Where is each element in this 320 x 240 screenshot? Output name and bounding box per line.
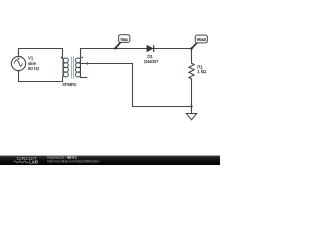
ground symbol — [186, 114, 196, 120]
label D1 value — [144, 54, 159, 64]
net flag Vout — [190, 35, 207, 50]
center-tap terminal dot — [86, 62, 88, 64]
net flag Vac — [114, 35, 130, 50]
svg-text:1 kΩ: 1 kΩ — [197, 69, 207, 74]
wire center-tap run — [81, 64, 192, 107]
svg-text:LAB: LAB — [29, 160, 38, 165]
voltage source V1 — [11, 56, 25, 71]
wire top-right (secondary top to Vout node) — [81, 49, 147, 59]
wire secondary bottom stub — [81, 76, 87, 79]
secondary polarity dot — [81, 57, 83, 59]
label R1 value — [197, 64, 207, 74]
svg-text:1N4007: 1N4007 — [144, 59, 159, 64]
resistor R1 — [189, 63, 194, 79]
watermark text — [47, 156, 99, 164]
transformer core — [72, 57, 74, 79]
CircuitLab logo — [14, 156, 38, 165]
primary polarity dot — [61, 57, 63, 59]
label V1 value — [28, 56, 39, 71]
svg-text:Vac: Vac — [120, 37, 128, 42]
wire R1-to-ground — [191, 79, 193, 114]
ground junction dot — [190, 105, 192, 107]
svg-text:http://circuitlab.com/c/8es268: http://circuitlab.com/c/8es2685dc6e4 — [47, 159, 99, 163]
wire bottom-left (primary bottom to V1 bottom) — [19, 71, 63, 82]
transformer XFMR2 primary winding — [63, 58, 68, 77]
svg-text:60 Hz: 60 Hz — [28, 66, 39, 71]
transformer XFMR2 secondary winding — [76, 58, 81, 77]
wire diode-to-Vout — [154, 48, 192, 50]
diode D1 — [147, 45, 154, 52]
wire top-left (V1 top to primary top) — [19, 49, 63, 59]
watermark bar — [0, 156, 220, 166]
wire Vout-to-R1 — [191, 49, 193, 64]
svg-text:XFMR2: XFMR2 — [62, 82, 77, 87]
svg-text:Vout: Vout — [197, 37, 207, 42]
